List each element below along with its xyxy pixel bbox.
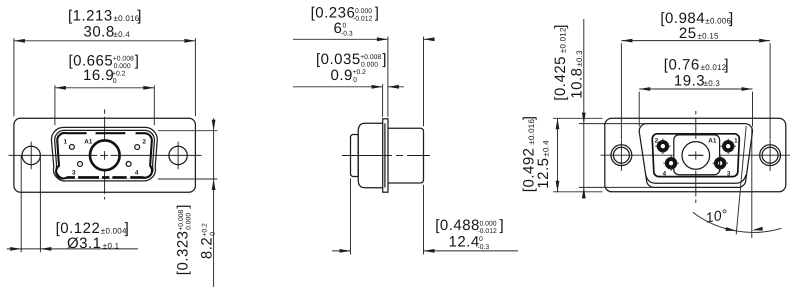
svg-text:±0.016: ±0.016: [527, 118, 536, 144]
svg-text:[0.236: [0.236: [311, 5, 356, 22]
extension line slanted for 10 degrees: [736, 126, 746, 235]
vertical centerline front view: [104, 110, 106, 200]
arrowhead right 3.1: [40, 247, 51, 251]
svg-text:-0.012: -0.012: [478, 228, 497, 235]
arrowhead right 16.9: [143, 86, 154, 90]
mounting hole right front: [169, 146, 187, 164]
svg-text:±0.006: ±0.006: [705, 16, 731, 25]
insert outline rear (thick): [652, 134, 739, 177]
svg-text:[1.213: [1.213: [68, 8, 113, 25]
centerline gaps front view: [97, 114, 110, 197]
svg-text:[0.488: [0.488: [435, 217, 480, 234]
svg-text:2: 2: [655, 137, 659, 144]
mounting hole left crosshair: [30, 142, 32, 170]
svg-text:-0.3: -0.3: [341, 30, 353, 37]
extension line bottom for 12.5: [553, 191, 603, 193]
svg-text:±0.016: ±0.016: [114, 14, 140, 23]
flange side: [383, 119, 388, 192]
extension line right for 6: [423, 37, 425, 127]
dimension line 10.8: [583, 19, 585, 199]
svg-text:±0.1: ±0.1: [103, 242, 120, 251]
arrowhead left 0.9: [372, 85, 383, 89]
reference line vertical for 10 degrees: [751, 129, 753, 239]
svg-text:+0.2: +0.2: [202, 223, 209, 237]
retention contour notch bottom 2: [99, 176, 102, 179]
dimension 0.9 flange thickness: [293, 51, 404, 117]
shell retention contour thick: [56, 133, 152, 179]
dimension 12.4 overall depth: [332, 178, 518, 254]
dimension 10 degrees draft angle: [693, 126, 782, 238]
svg-text:]: ]: [375, 5, 380, 22]
rotated label 12.5 ±0.4: [535, 140, 552, 189]
rotated label 8.2 +0.2/0: [198, 223, 216, 259]
dimension 8.2 opening height (rotated): [158, 118, 218, 287]
svg-text:+0.008: +0.008: [178, 210, 185, 231]
dimension line 19.3: [639, 88, 752, 90]
mounting hole left rear inner: [613, 147, 629, 163]
extension line left for 3.1: [20, 156, 22, 252]
svg-text:0.000: 0.000: [114, 63, 131, 70]
arrowhead top 10.8: [582, 113, 586, 124]
svg-text:+0.008: +0.008: [113, 56, 134, 63]
dimension line 25: [621, 40, 770, 42]
arrowhead right 19.3: [742, 87, 753, 91]
dimension line 8.2: [213, 118, 215, 287]
svg-text:+0.008: +0.008: [360, 54, 381, 61]
arrowhead bottom 10.8: [582, 187, 586, 198]
arrowhead left 6: [377, 37, 388, 41]
svg-text:4: 4: [135, 170, 139, 177]
svg-text:±0.3: ±0.3: [575, 50, 584, 67]
retention contour notch bottom 1: [75, 176, 78, 179]
svg-text:0.000: 0.000: [355, 8, 372, 15]
svg-text:±0.4: ±0.4: [541, 140, 550, 157]
arrowhead right 6: [424, 37, 435, 41]
pin 1 front: [69, 144, 74, 149]
front insulator ring side: [351, 135, 359, 177]
extension line right for 16.9: [153, 85, 155, 125]
pin 4 front: [126, 161, 131, 166]
arrowhead left 16.9: [55, 86, 66, 90]
pin 4 rear: [663, 156, 678, 171]
svg-text:A1: A1: [708, 138, 717, 145]
dimension line 12.4 left segment: [332, 250, 351, 252]
retention contour notch bottom 4: [127, 176, 131, 179]
svg-text:[0.425: [0.425: [552, 56, 569, 101]
svg-text:+0.2: +0.2: [353, 69, 367, 76]
arrowhead top 12.5: [556, 118, 560, 129]
extension line right for 12.4: [423, 185, 425, 255]
arrowhead top 8.2: [212, 120, 216, 131]
dimension diameter 3.1 mounting hole: [7, 156, 138, 252]
extension line left for 25: [620, 43, 622, 139]
svg-text:]: ]: [500, 217, 505, 234]
arrowhead right 0.9: [388, 85, 399, 89]
dimension 10.8 body height (rotated): [552, 19, 654, 199]
flange outline front: [14, 118, 196, 192]
dimension line 0.9 left segment: [293, 86, 383, 88]
svg-text:0.000: 0.000: [361, 62, 378, 69]
svg-text:12.5: 12.5: [535, 157, 552, 188]
shell boot profile side: [358, 123, 383, 187]
mounting hole right rear inner: [762, 147, 778, 163]
extension line left for 12.4: [350, 178, 352, 254]
arrowhead right 30.8: [184, 39, 195, 43]
extension line right for 19.3: [752, 92, 754, 127]
rear body outline: [639, 124, 752, 188]
svg-text:]: ]: [137, 8, 142, 25]
svg-text:12.4: 12.4: [449, 234, 480, 251]
svg-text:]: ]: [382, 51, 387, 68]
svg-text:0: 0: [209, 232, 216, 236]
extension line left for 6: [387, 37, 389, 117]
svg-text:]: ]: [724, 57, 729, 74]
mounting hole right rear outer: [760, 145, 781, 166]
flange outline rear: [605, 118, 786, 192]
svg-text:4: 4: [663, 170, 667, 177]
svg-text:±0.012: ±0.012: [701, 63, 727, 72]
svg-text:]: ]: [135, 52, 140, 69]
dimension line 6 left segment: [293, 38, 388, 40]
svg-text:±0.3: ±0.3: [704, 79, 721, 88]
coax contact A1 cross: [688, 154, 703, 156]
svg-text:0.000: 0.000: [480, 221, 497, 228]
dimension line 6 right segment: [424, 38, 434, 40]
extension line for 0.9: [382, 84, 384, 117]
shell inner outline front: [55, 130, 155, 178]
dimension 12.5 flange height (rotated): [521, 116, 603, 193]
shell outer outline front: [51, 127, 157, 181]
dimension 6 rear body depth: [293, 5, 435, 127]
svg-text:-0.3: -0.3: [478, 244, 490, 251]
svg-text:1: 1: [734, 137, 738, 144]
extension line top for 10.8: [579, 123, 648, 125]
svg-text:[0.323: [0.323: [175, 230, 192, 275]
rotated label [0.492 ±0.016]: [521, 116, 538, 193]
dimension line 3.1: [7, 248, 138, 250]
dimension line 30.8: [14, 40, 196, 42]
arrowhead bottom 12.5: [556, 181, 560, 192]
pin 3 front: [78, 161, 83, 166]
rotated label [0.323 +0.008/0.000]: [175, 204, 193, 275]
dimension 19.3 body width: [639, 57, 752, 127]
svg-text:]: ]: [125, 220, 130, 237]
rotated label 10.8 ±0.3: [568, 50, 585, 99]
arrowhead left 30.8: [14, 39, 25, 43]
mounting hole left rear outer: [611, 145, 632, 166]
svg-text:2: 2: [143, 139, 147, 146]
cavity outline rear: [674, 135, 720, 175]
svg-text:0.9: 0.9: [331, 67, 353, 84]
svg-text:±0.004: ±0.004: [101, 226, 127, 235]
extension line bottom for 8.2: [158, 178, 218, 180]
arrowhead right 12.4: [424, 249, 435, 253]
extension line right for 30.8: [194, 38, 196, 116]
retention contour notch top 2: [125, 132, 135, 135]
svg-text:0.000: 0.000: [185, 213, 192, 230]
svg-text:±0.012: ±0.012: [559, 27, 568, 53]
svg-text:1: 1: [64, 139, 68, 146]
horizontal centerline front view: [9, 154, 202, 156]
svg-text:0: 0: [113, 78, 117, 85]
svg-text:[0.035: [0.035: [316, 51, 361, 68]
svg-text:16.9: 16.9: [83, 67, 114, 84]
extension line left for 16.9: [54, 85, 56, 125]
svg-text:25: 25: [679, 25, 697, 42]
dimension line 12.4 right segment: [424, 250, 519, 252]
dimension 16.9 insert opening width: [55, 52, 154, 125]
svg-text:0: 0: [353, 77, 357, 84]
centerline gaps rear view: [673, 115, 719, 200]
dimension 25 hole spacing: [621, 10, 770, 139]
svg-text:[0.76: [0.76: [664, 57, 700, 74]
svg-text:0: 0: [343, 23, 347, 30]
svg-text:]: ]: [521, 116, 538, 121]
extension line top for 8.2: [158, 130, 218, 132]
extension line top for 12.5: [553, 117, 603, 119]
svg-text:]: ]: [552, 24, 569, 29]
mounting hole left front: [22, 146, 40, 164]
dimension line 16.9: [55, 87, 154, 89]
mounting hole right crosshair: [177, 142, 179, 170]
extension line left for 19.3: [638, 92, 640, 127]
svg-text:Ø3.1: Ø3.1: [67, 235, 102, 252]
svg-text:0: 0: [479, 236, 483, 243]
extension line right for 3.1: [39, 156, 41, 252]
svg-text:8.2: 8.2: [198, 237, 215, 259]
retention contour notch bottom 3: [109, 176, 112, 179]
pin 2 front: [135, 145, 140, 150]
side view centerline: [342, 155, 430, 157]
arrowhead left 10 degrees: [725, 227, 736, 232]
arrowhead right 10 degrees: [752, 227, 763, 232]
arrowhead bottom 8.2: [212, 179, 216, 190]
vertical centerline rear view: [695, 111, 697, 203]
dimension 30.8 overall width: [14, 8, 196, 117]
svg-text:19.3: 19.3: [674, 73, 705, 90]
mounting hole left rear crosshair: [620, 140, 622, 171]
svg-text:3: 3: [72, 169, 76, 176]
svg-text:3: 3: [727, 170, 731, 177]
svg-text:±0.15: ±0.15: [698, 32, 720, 41]
pin 2 rear: [655, 139, 670, 154]
rotated label [0.425 ±0.012]: [552, 24, 569, 101]
dimension line 12.5: [557, 118, 559, 192]
flange wrap line side: [384, 123, 386, 187]
extension line left for 30.8: [13, 38, 15, 116]
arrowhead right 25: [759, 39, 770, 43]
retention contour notch top 1: [87, 132, 96, 135]
extension line bottom for 10.8: [579, 186, 654, 188]
dimension arc 10 degrees: [693, 212, 782, 232]
arrowhead left 19.3: [639, 87, 650, 91]
svg-text:]: ]: [729, 10, 734, 27]
coax contact A1 front: [90, 140, 120, 170]
svg-text:±0.4: ±0.4: [114, 30, 131, 39]
horizontal centerline rear view: [601, 154, 791, 156]
dimension line 0.9 right segment: [388, 86, 404, 88]
arrowhead left 12.4: [340, 249, 351, 253]
svg-text:10.8: 10.8: [568, 67, 585, 98]
svg-text:30.8: 30.8: [84, 24, 115, 41]
pin 3 rear: [713, 156, 728, 171]
svg-text:A1: A1: [84, 138, 93, 145]
rear body side: [388, 128, 424, 183]
svg-text:+0.2: +0.2: [112, 70, 126, 77]
rear grommet lip: [646, 175, 746, 183]
coax contact A1 rear: [682, 142, 710, 170]
svg-text:]: ]: [175, 204, 192, 209]
mounting hole right rear crosshair: [769, 140, 771, 171]
extension line right for 25: [769, 43, 771, 139]
pin 1 rear: [721, 139, 736, 154]
arrowhead left 3.1: [10, 247, 21, 251]
svg-text:-0.012: -0.012: [353, 15, 372, 22]
arrowhead left 25: [621, 39, 632, 43]
